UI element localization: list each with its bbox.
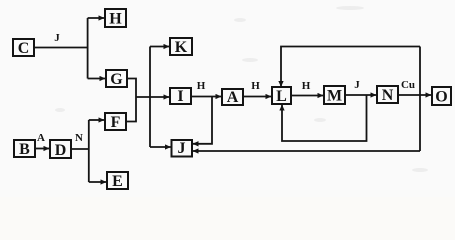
- svg-text:A: A: [37, 132, 45, 144]
- svg-text:F: F: [111, 114, 121, 131]
- svg-text:Cu: Cu: [401, 79, 415, 91]
- svg-text:I: I: [177, 88, 183, 105]
- svg-text:N: N: [382, 87, 394, 104]
- svg-text:H: H: [251, 80, 260, 92]
- svg-text:L: L: [276, 88, 287, 105]
- svg-text:J: J: [354, 79, 360, 91]
- svg-text:G: G: [110, 71, 123, 88]
- svg-text:B: B: [19, 141, 30, 158]
- svg-text:H: H: [302, 80, 311, 92]
- svg-text:D: D: [55, 142, 67, 159]
- svg-text:C: C: [18, 40, 30, 57]
- svg-text:N: N: [75, 132, 83, 144]
- svg-text:H: H: [197, 80, 206, 92]
- svg-text:O: O: [435, 89, 447, 106]
- svg-text:M: M: [327, 88, 342, 105]
- svg-text:E: E: [112, 173, 123, 190]
- svg-text:J: J: [178, 140, 186, 157]
- svg-text:K: K: [175, 39, 188, 56]
- svg-text:H: H: [109, 11, 122, 28]
- svg-text:J: J: [54, 32, 60, 44]
- svg-text:A: A: [227, 89, 239, 106]
